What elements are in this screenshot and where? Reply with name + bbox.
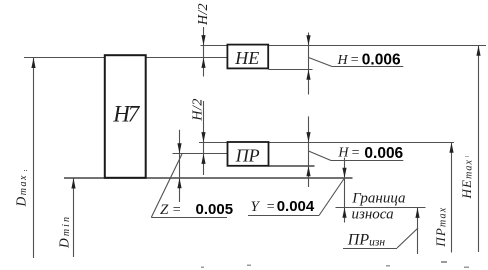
label Y=0.004 bbox=[251, 198, 315, 215]
dimension Y bbox=[342, 158, 346, 223]
svg-text:НЕmax: НЕmax bbox=[459, 159, 475, 199]
svg-text:ПР: ПР bbox=[235, 146, 260, 166]
svg-text:..: .. bbox=[465, 150, 469, 159]
svg-text:Н/2: Н/2 bbox=[196, 4, 211, 27]
svg-text:износа: износа bbox=[352, 207, 394, 223]
svg-text:0.006: 0.006 bbox=[362, 51, 401, 68]
dimension H/2 lower bbox=[201, 101, 205, 175]
svg-text:=: = bbox=[173, 203, 181, 218]
wire ПР center line bbox=[173, 153, 228, 155]
svg-text:Граница: Граница bbox=[351, 190, 405, 206]
svg-text:Dmin: Dmin bbox=[57, 217, 73, 249]
label Z=0.005 bbox=[160, 201, 233, 218]
dimension Dmin bbox=[71, 178, 75, 257]
dimension НЕmax bbox=[476, 46, 480, 252]
svg-text:Н/2: Н/2 bbox=[191, 99, 206, 122]
svg-text:H: H bbox=[337, 53, 349, 68]
dimension H of НЕ bbox=[306, 33, 310, 95]
dimension Z bbox=[177, 130, 181, 202]
box НЕ gauge tolerance bbox=[227, 45, 268, 69]
dimension ПРmax bbox=[449, 143, 453, 253]
box ПР gauge tolerance bbox=[228, 142, 269, 166]
svg-text:Dmax: Dmax bbox=[14, 175, 30, 208]
node wear limit line bbox=[336, 207, 426, 209]
box H7 tolerance zone bbox=[105, 55, 146, 178]
node Dmin level line bbox=[64, 177, 353, 179]
leader H=0.006 ПР bbox=[309, 151, 404, 161]
wire НЕ top line bbox=[201, 45, 487, 47]
mark bottom specks bbox=[201, 261, 469, 268]
svg-text:Y: Y bbox=[251, 199, 261, 215]
wire ПР bottom line bbox=[269, 165, 315, 167]
svg-text:..: .. bbox=[24, 164, 28, 173]
svg-text:H7: H7 bbox=[112, 102, 141, 127]
svg-text:0.006: 0.006 bbox=[364, 145, 403, 162]
svg-text:0.005: 0.005 bbox=[196, 201, 234, 218]
svg-text:ПРизн: ПРизн bbox=[347, 231, 386, 248]
svg-text:0.004: 0.004 bbox=[277, 198, 315, 215]
leader Z=0.005 bbox=[151, 154, 227, 218]
svg-text:=: = bbox=[352, 145, 360, 160]
leader H=0.006 НЕ bbox=[309, 58, 404, 67]
dimension Dmax bbox=[31, 58, 35, 258]
arrow ПРизн bbox=[415, 208, 419, 218]
dimension H/2 upper bbox=[201, 27, 205, 77]
leader ПРизн bbox=[343, 208, 418, 254]
label H=0.006 ПР bbox=[337, 145, 403, 162]
svg-text:=: = bbox=[267, 200, 275, 215]
label H=0.006 НЕ bbox=[337, 51, 401, 68]
svg-text:=: = bbox=[351, 53, 359, 68]
wire ПР top line bbox=[199, 142, 454, 144]
svg-text:H: H bbox=[337, 146, 349, 161]
svg-text:ПРmax: ПРmax bbox=[433, 207, 449, 248]
svg-text:Z: Z bbox=[160, 202, 169, 218]
dimension H of ПР bbox=[306, 116, 310, 187]
wire НЕ bottom line bbox=[269, 69, 313, 71]
leader Y=0.004 bbox=[248, 178, 345, 216]
svg-text:НЕ: НЕ bbox=[234, 48, 259, 68]
node Dmax level line bbox=[24, 57, 227, 59]
